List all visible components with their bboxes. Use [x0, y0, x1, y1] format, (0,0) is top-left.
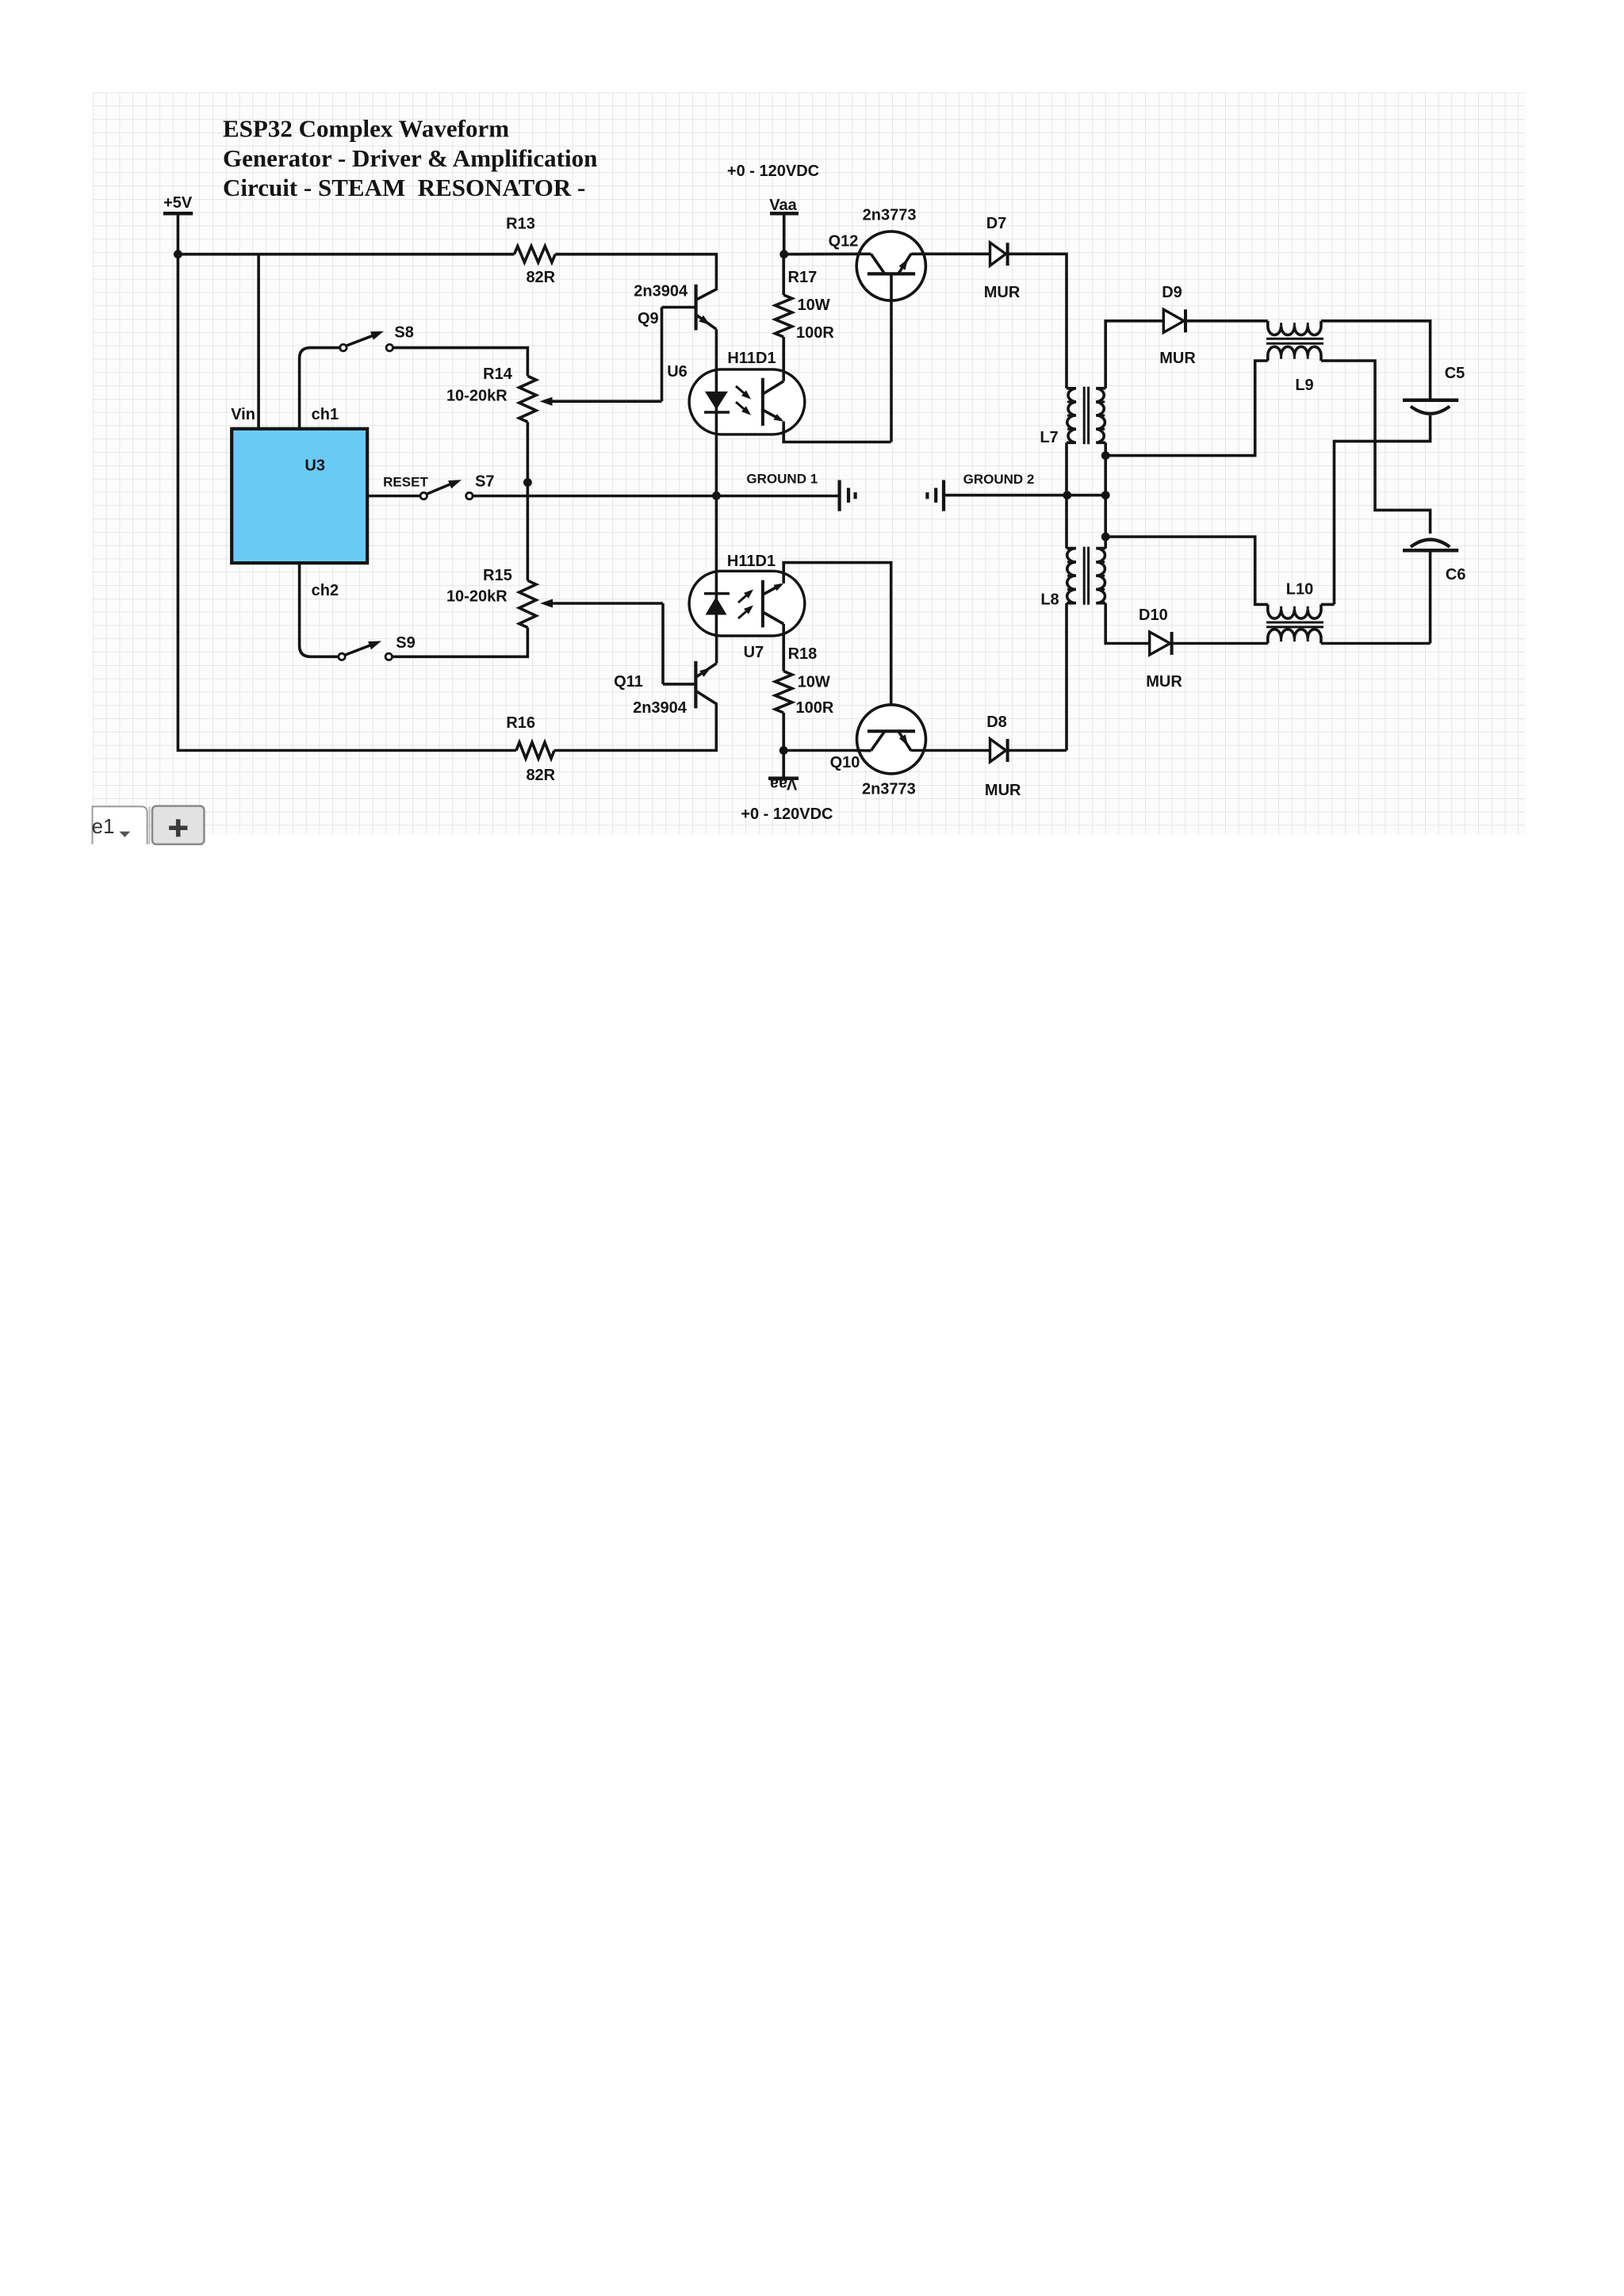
- svg-text:e1: e1: [92, 814, 115, 838]
- wire RESET: [367, 495, 420, 498]
- ground GROUND 1: [746, 472, 855, 511]
- power Vaa bottom: [741, 751, 833, 824]
- svg-text:RESET: RESET: [383, 475, 428, 490]
- svg-text:2n3773: 2n3773: [863, 206, 917, 224]
- svg-text:+0 - 120VDC: +0 - 120VDC: [741, 806, 833, 823]
- wire L9 return: [1105, 361, 1268, 456]
- wire rail to Q10: [783, 749, 871, 752]
- wire Vin: [231, 254, 259, 429]
- svg-text:GROUND 2: GROUND 2: [963, 472, 1035, 487]
- U7 LED: [704, 571, 753, 636]
- transformer L8: [1040, 547, 1105, 609]
- svg-text:R15: R15: [483, 567, 512, 584]
- capacitor C5: [1403, 365, 1465, 414]
- svg-text:C5: C5: [1445, 365, 1465, 382]
- title text block: [223, 114, 597, 201]
- svg-text:U3: U3: [304, 457, 325, 474]
- transistor Q9: [634, 282, 716, 330]
- wire L7 right upper to D9: [1105, 321, 1163, 388]
- node ground2 L7 right: [1101, 491, 1110, 499]
- svg-text:Q9: Q9: [638, 310, 659, 327]
- svg-text:10W: 10W: [798, 674, 830, 691]
- svg-text:Q11: Q11: [614, 673, 643, 691]
- svg-text:100R: 100R: [796, 324, 834, 342]
- node ground2 L7 left: [1063, 491, 1071, 499]
- svg-text:R13: R13: [506, 216, 535, 233]
- wire D10 to L10: [1172, 642, 1268, 645]
- svg-text:D8: D8: [986, 714, 1007, 731]
- svg-text:10-20kR: 10-20kR: [446, 588, 507, 606]
- node R14 lower terminal: [523, 478, 532, 487]
- node LED line junction: [712, 492, 721, 500]
- svg-text:Vaa: Vaa: [769, 197, 797, 214]
- wire S8 to R14: [393, 348, 528, 377]
- L9 core: [1266, 339, 1323, 343]
- ic U3: [232, 429, 367, 563]
- wire Q10 to D8: [911, 749, 990, 752]
- L10 core: [1266, 622, 1323, 627]
- svg-text:MUR: MUR: [1159, 350, 1196, 367]
- power Vaa top: [727, 163, 819, 254]
- wire L10 top right riser: [1321, 603, 1335, 607]
- power +5V symbol: [163, 194, 193, 254]
- inductor L9 bottom winding: [1268, 346, 1321, 361]
- wire U6 emitter to Q12 base: [783, 422, 891, 442]
- svg-text:R17: R17: [788, 269, 818, 286]
- sheet tab: [92, 806, 150, 844]
- switch S7: [383, 473, 494, 499]
- canvas grid background: [93, 93, 1525, 835]
- inductor L10 bottom winding: [1268, 629, 1321, 644]
- wire L9 top to C5: [1321, 321, 1431, 399]
- svg-text:H11D1: H11D1: [727, 350, 776, 367]
- svg-text:D10: D10: [1139, 607, 1168, 624]
- svg-text:R18: R18: [788, 645, 818, 663]
- transistor Q10: [830, 705, 926, 798]
- wiper arrow R15: [540, 599, 663, 684]
- wire R17 to U6 collector: [782, 337, 785, 370]
- svg-text:L10: L10: [1286, 581, 1313, 599]
- U6 LED: [704, 369, 751, 434]
- switch S8: [340, 324, 414, 351]
- wire D8 to L8: [1008, 749, 1067, 752]
- wire R13 to Q9 collector: [555, 254, 716, 300]
- svg-text:S9: S9: [396, 634, 415, 652]
- svg-text:Generator - Driver & Amplifica: Generator - Driver & Amplification: [223, 144, 597, 172]
- wire ground2 net: [944, 494, 1105, 497]
- svg-text:S8: S8: [394, 324, 413, 342]
- svg-text:MUR: MUR: [985, 782, 1021, 799]
- svg-text:U6: U6: [667, 363, 688, 381]
- inductor L9 top winding: [1268, 321, 1321, 394]
- svg-text:R14: R14: [483, 365, 513, 383]
- wire C5 bottom: [1335, 415, 1431, 604]
- node L7 right to L9 return: [1101, 451, 1110, 460]
- wire L7 right lower: [1104, 442, 1107, 548]
- node Vaa bottom junction: [779, 746, 788, 755]
- svg-text:U7: U7: [744, 644, 764, 661]
- transistor Q11: [614, 661, 716, 717]
- resistor R18: [776, 645, 834, 717]
- svg-text:C6: C6: [1446, 566, 1466, 584]
- svg-text:MUR: MUR: [984, 284, 1021, 301]
- svg-text:Vaa: Vaa: [769, 775, 797, 793]
- svg-text:L9: L9: [1295, 377, 1313, 394]
- wire L8 right lower to D10: [1105, 603, 1150, 644]
- svg-text:D7: D7: [986, 215, 1007, 232]
- switch S9: [339, 634, 416, 660]
- wire ch1: [300, 348, 340, 429]
- node Vaa top junction: [779, 250, 788, 258]
- svg-text:ch1: ch1: [312, 406, 339, 423]
- resistor R13: [506, 216, 556, 287]
- wire U7 collector to R18: [782, 624, 785, 672]
- wire R16 to Q11 collector: [554, 691, 716, 750]
- wire Q11 emitter to U7: [715, 636, 718, 664]
- svg-text:Q12: Q12: [829, 233, 859, 251]
- wire R18 to rail: [782, 713, 785, 751]
- transformer L7: [1040, 387, 1105, 446]
- wire Q12 to D7: [911, 252, 990, 255]
- svg-text:10-20kR: 10-20kR: [446, 387, 507, 404]
- diode D8: [985, 714, 1021, 799]
- wire D9 to L9: [1185, 320, 1268, 323]
- wire ground1 net: [473, 495, 839, 498]
- svg-text:2n3904: 2n3904: [634, 282, 688, 300]
- wire U6 LED cathode down: [715, 434, 718, 571]
- potentiometer R14: [446, 365, 536, 422]
- wire L10 bottom to C6: [1321, 642, 1431, 645]
- potentiometer R15: [446, 567, 536, 627]
- resistor R17: [776, 254, 835, 342]
- svg-text:82R: 82R: [526, 767, 555, 784]
- svg-text:R16: R16: [506, 714, 535, 732]
- wire R14 bottom through S7 wire to R15 top: [527, 422, 530, 580]
- diode D10: [1139, 607, 1182, 691]
- svg-text:MUR: MUR: [1146, 673, 1182, 691]
- svg-text:Q10: Q10: [830, 754, 860, 771]
- svg-text:GROUND 1: GROUND 1: [746, 472, 818, 487]
- svg-text:Circuit - STEAM RESONATOR -: Circuit - STEAM RESONATOR -: [223, 174, 585, 201]
- svg-text:Vin: Vin: [231, 406, 255, 423]
- optocoupler U7 body: [689, 553, 805, 661]
- svg-text:ch2: ch2: [312, 582, 339, 599]
- svg-text:L7: L7: [1040, 429, 1058, 446]
- U7 phototransistor: [763, 580, 783, 628]
- wire U7 emitter to Q10 base: [783, 563, 891, 731]
- inductor L10 top winding: [1268, 581, 1321, 619]
- optocoupler U6 body: [667, 350, 805, 434]
- diode D9: [1159, 284, 1196, 367]
- wire D7 to L7: [1008, 254, 1067, 388]
- wire +5V left rail down and bottom: [178, 254, 516, 751]
- wire L9 bottom to C6 riser: [1321, 361, 1431, 534]
- diode D7: [984, 215, 1021, 301]
- wire L7 left lower: [1065, 442, 1068, 548]
- svg-text:82R: 82R: [526, 269, 555, 286]
- svg-text:+5V: +5V: [163, 194, 193, 212]
- svg-text:H11D1: H11D1: [727, 553, 776, 570]
- wire Q9 emitter to U6: [715, 329, 718, 369]
- node L8 right to L10 feed: [1101, 533, 1110, 541]
- wire C6 bottom: [1429, 552, 1432, 643]
- wire ch2: [300, 563, 339, 656]
- svg-text:2n3773: 2n3773: [862, 781, 916, 798]
- wire L8 left lower to D8 rail: [1065, 603, 1068, 751]
- wire top rail: [178, 253, 514, 256]
- svg-text:+0 - 120VDC: +0 - 120VDC: [727, 163, 819, 180]
- svg-text:S7: S7: [475, 473, 494, 491]
- svg-text:ESP32 Complex Waveform: ESP32 Complex Waveform: [223, 114, 509, 142]
- wire L10 feed: [1105, 537, 1268, 604]
- svg-text:L8: L8: [1040, 591, 1059, 609]
- capacitor C6: [1403, 540, 1465, 584]
- transistor Q12: [829, 206, 926, 442]
- wire Vaa to Q12: [784, 252, 871, 255]
- svg-text:100R: 100R: [796, 699, 834, 717]
- add sheet button: [152, 806, 204, 844]
- wiper arrow R14: [540, 308, 662, 406]
- ground GROUND 2: [927, 472, 1034, 511]
- svg-text:2n3904: 2n3904: [633, 699, 688, 717]
- wire S9 to R15: [393, 628, 528, 657]
- resistor R16: [506, 714, 555, 784]
- node +5V junction: [174, 250, 182, 258]
- svg-text:10W: 10W: [798, 297, 830, 314]
- svg-text:D9: D9: [1162, 284, 1182, 301]
- U6 phototransistor: [763, 368, 783, 426]
